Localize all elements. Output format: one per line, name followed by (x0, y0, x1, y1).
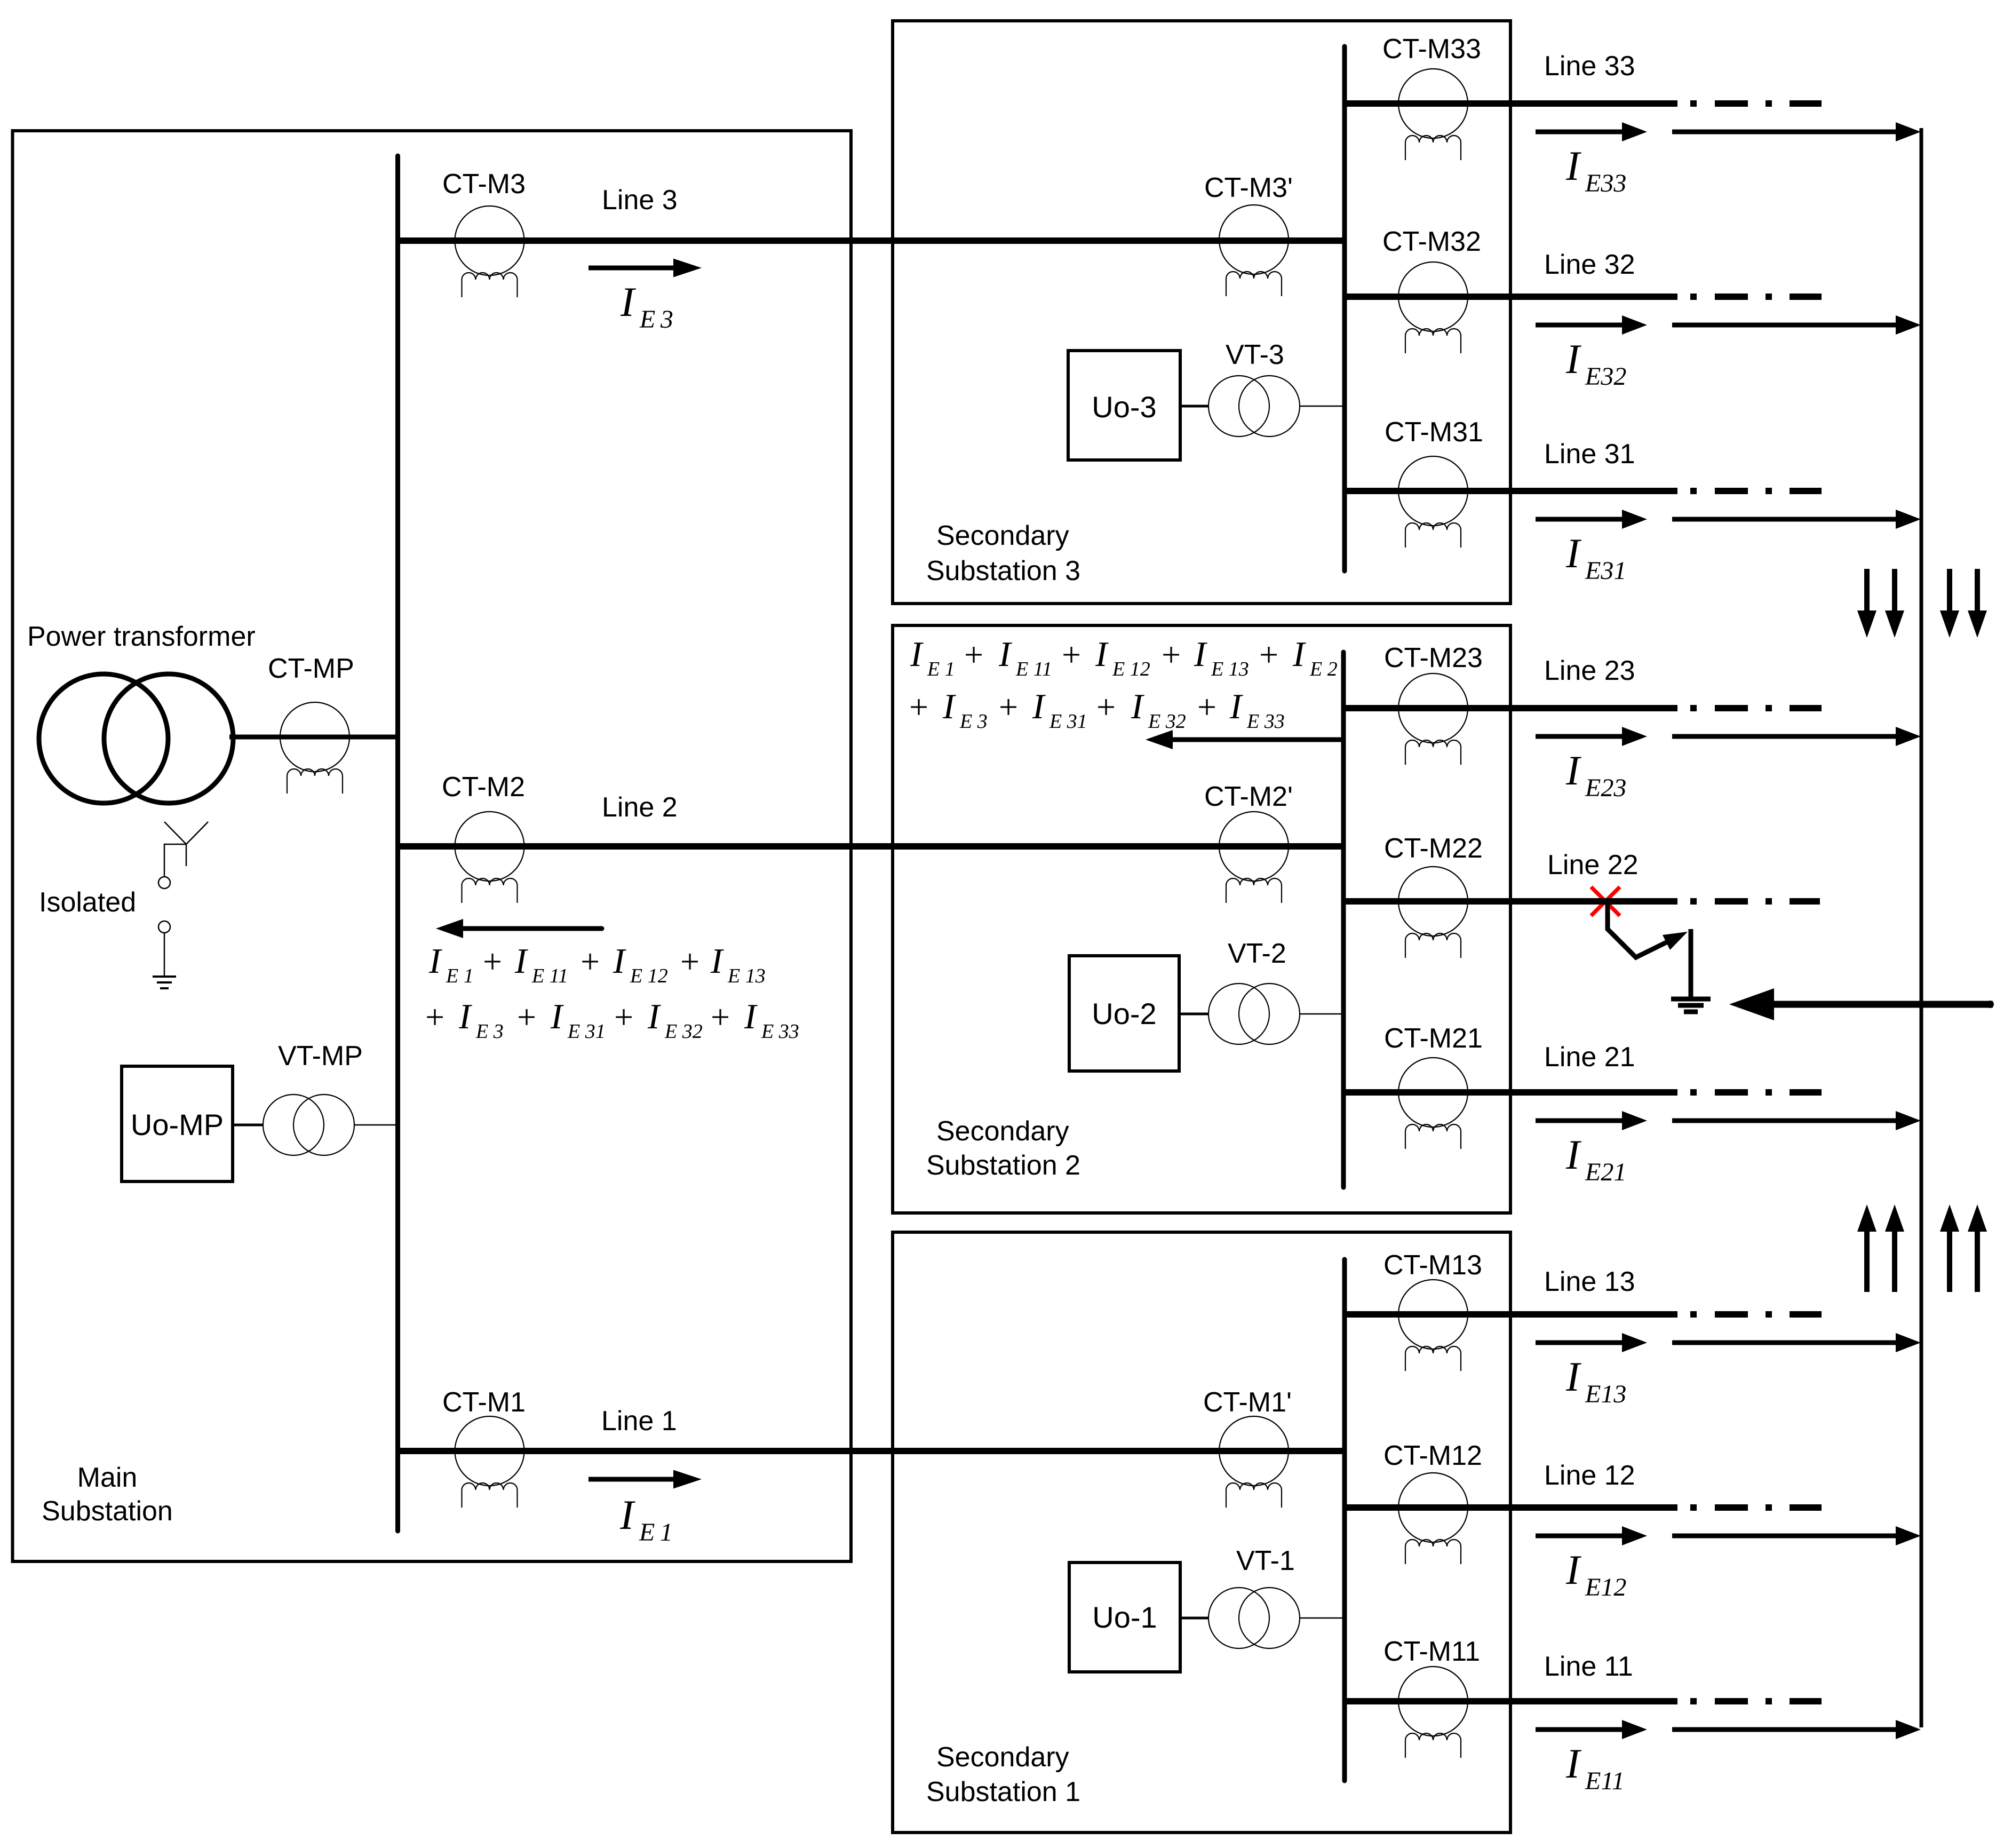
svg-text:Line 3: Line 3 (602, 185, 678, 216)
svg-text:E11: E11 (1585, 1767, 1625, 1795)
svg-text:E 2: E 2 (1309, 658, 1338, 680)
svg-text:Power transformer: Power transformer (27, 621, 256, 652)
svg-text:I: I (428, 941, 442, 981)
svg-text:E 13: E 13 (727, 965, 766, 987)
svg-text:I: I (744, 997, 758, 1036)
svg-text:E 13: E 13 (1211, 658, 1249, 680)
svg-text:I: I (514, 941, 528, 981)
svg-text:+: + (1096, 688, 1116, 726)
svg-text:I: I (710, 941, 724, 981)
svg-text:E 33: E 33 (1246, 710, 1285, 733)
svg-text:I: I (1565, 1131, 1582, 1178)
svg-text:CT-M3: CT-M3 (442, 169, 526, 200)
svg-text:E 1: E 1 (639, 1518, 673, 1546)
svg-text:+: + (580, 942, 600, 980)
svg-text:CT-M11: CT-M11 (1383, 1636, 1480, 1667)
svg-text:CT-M2: CT-M2 (442, 772, 525, 803)
svg-text:I: I (1229, 687, 1243, 726)
svg-text:Isolated: Isolated (39, 887, 136, 918)
svg-text:E 12: E 12 (1112, 658, 1150, 680)
svg-text:I: I (1565, 142, 1582, 189)
svg-text:E 3: E 3 (639, 305, 673, 334)
svg-text:E 31: E 31 (567, 1020, 606, 1043)
svg-text:Line 12: Line 12 (1544, 1460, 1635, 1491)
svg-text:VT-3: VT-3 (1226, 339, 1284, 370)
svg-text:CT-M22: CT-M22 (1384, 833, 1483, 864)
svg-text:E12: E12 (1585, 1573, 1626, 1601)
svg-text:E 1: E 1 (446, 965, 474, 987)
svg-text:I: I (458, 997, 472, 1036)
svg-text:Substation 2: Substation 2 (926, 1150, 1080, 1181)
svg-text:Uo-3: Uo-3 (1092, 390, 1156, 424)
svg-text:CT-M21: CT-M21 (1384, 1023, 1483, 1054)
svg-text:I: I (1292, 634, 1306, 674)
svg-text:+: + (1259, 636, 1278, 673)
svg-text:I: I (1194, 634, 1207, 674)
svg-text:I: I (1565, 530, 1582, 576)
svg-text:I: I (1565, 1353, 1582, 1400)
svg-text:I: I (1131, 687, 1144, 726)
svg-text:E13: E13 (1585, 1380, 1626, 1408)
svg-text:E 11: E 11 (1015, 658, 1052, 680)
svg-text:Line 23: Line 23 (1544, 655, 1635, 686)
svg-text:+: + (964, 636, 983, 673)
svg-text:VT-MP: VT-MP (278, 1041, 363, 1072)
svg-text:I: I (619, 1492, 636, 1538)
svg-text:I: I (647, 997, 661, 1036)
svg-text:CT-M12: CT-M12 (1383, 1440, 1482, 1471)
svg-text:Line 21: Line 21 (1544, 1042, 1635, 1073)
svg-text:E 11: E 11 (531, 965, 568, 987)
svg-text:I: I (1032, 687, 1046, 726)
svg-text:Main: Main (77, 1462, 138, 1493)
svg-text:CT-M33: CT-M33 (1382, 34, 1481, 65)
svg-text:CT-M1: CT-M1 (442, 1387, 526, 1418)
svg-text:CT-MP: CT-MP (268, 653, 354, 684)
svg-text:I: I (1565, 747, 1582, 794)
svg-text:VT-1: VT-1 (1236, 1545, 1295, 1576)
svg-text:Uo-2: Uo-2 (1092, 997, 1156, 1030)
svg-text:+: + (483, 942, 502, 980)
svg-text:I: I (1565, 336, 1582, 382)
svg-text:+: + (1062, 636, 1081, 673)
svg-text:Line 22: Line 22 (1547, 850, 1639, 881)
svg-text:VT-2: VT-2 (1228, 938, 1286, 969)
svg-text:E 33: E 33 (761, 1020, 799, 1043)
svg-text:E 3: E 3 (959, 710, 988, 733)
svg-text:CT-M23: CT-M23 (1384, 643, 1483, 673)
svg-text:+: + (999, 688, 1018, 726)
svg-text:Line 31: Line 31 (1544, 439, 1635, 470)
svg-text:Line 2: Line 2 (602, 792, 678, 823)
svg-text:Secondary: Secondary (936, 1116, 1069, 1147)
svg-text:I: I (1095, 634, 1109, 674)
svg-text:I: I (620, 279, 637, 325)
svg-text:+: + (909, 688, 928, 726)
svg-text:CT-M2': CT-M2' (1204, 781, 1293, 812)
svg-text:+: + (680, 942, 699, 980)
svg-text:Substation 1: Substation 1 (926, 1776, 1080, 1807)
svg-text:+: + (425, 998, 444, 1036)
svg-text:CT-M3': CT-M3' (1204, 172, 1293, 203)
svg-text:I: I (1565, 1740, 1582, 1787)
svg-text:E 32: E 32 (1148, 710, 1186, 733)
svg-text:E21: E21 (1585, 1158, 1626, 1186)
svg-text:+: + (711, 998, 730, 1036)
svg-text:E 12: E 12 (630, 965, 668, 987)
svg-text:I: I (1565, 1546, 1582, 1593)
svg-text:E33: E33 (1585, 169, 1626, 197)
svg-text:E32: E32 (1585, 362, 1626, 391)
svg-text:Line 1: Line 1 (601, 1406, 677, 1437)
svg-text:+: + (1162, 636, 1181, 673)
svg-text:Substation: Substation (42, 1496, 173, 1527)
svg-text:I: I (998, 634, 1012, 674)
svg-text:CT-M32: CT-M32 (1382, 226, 1481, 257)
svg-text:Secondary: Secondary (936, 1742, 1069, 1773)
svg-text:CT-M13: CT-M13 (1383, 1250, 1482, 1281)
svg-text:Secondary: Secondary (936, 520, 1069, 551)
svg-text:I: I (942, 687, 956, 726)
svg-text:Uo-1: Uo-1 (1092, 1600, 1157, 1634)
svg-text:Uo-MP: Uo-MP (131, 1108, 224, 1141)
svg-text:Line 11: Line 11 (1544, 1651, 1633, 1682)
svg-text:Line 32: Line 32 (1544, 249, 1635, 280)
svg-text:E 3: E 3 (475, 1020, 504, 1043)
svg-text:E23: E23 (1585, 774, 1626, 802)
svg-text:I: I (613, 941, 626, 981)
svg-text:CT-M31: CT-M31 (1385, 417, 1483, 448)
svg-text:Substation 3: Substation 3 (926, 556, 1080, 586)
svg-text:E 1: E 1 (927, 658, 955, 680)
svg-text:I: I (910, 634, 924, 674)
svg-text:CT-M1': CT-M1' (1203, 1387, 1292, 1418)
svg-text:+: + (614, 998, 633, 1036)
svg-text:I: I (550, 997, 564, 1036)
svg-text:E 32: E 32 (664, 1020, 703, 1043)
svg-text:+: + (1197, 688, 1216, 726)
svg-text:E 31: E 31 (1049, 710, 1087, 733)
svg-text:E31: E31 (1585, 557, 1626, 585)
svg-text:Line 33: Line 33 (1544, 51, 1635, 82)
svg-text:Line 13: Line 13 (1544, 1266, 1635, 1297)
svg-text:+: + (517, 998, 536, 1036)
